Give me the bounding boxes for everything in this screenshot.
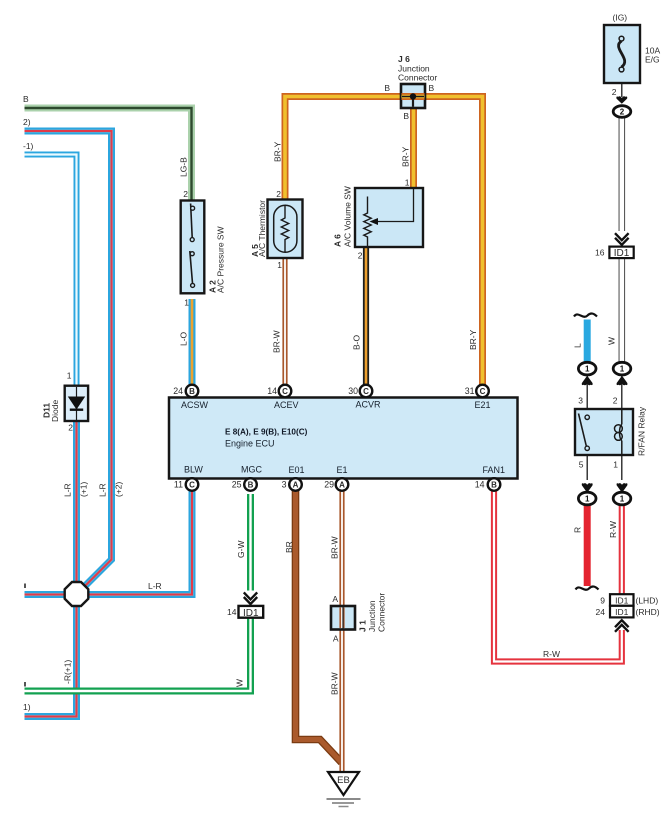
svg-text:ID1: ID1 <box>615 607 629 617</box>
svg-text:L: L <box>573 343 583 348</box>
svg-text:3: 3 <box>578 396 583 406</box>
svg-text:J 1: J 1 <box>358 620 368 632</box>
svg-text:BR: BR <box>284 541 294 553</box>
svg-text:A 6: A 6 <box>333 234 343 247</box>
svg-text:E1: E1 <box>337 465 348 475</box>
svg-text:BR-Y: BR-Y <box>468 329 478 350</box>
svg-text:BR-Y: BR-Y <box>401 146 411 167</box>
svg-text:MGC: MGC <box>241 465 262 475</box>
svg-text:(LHD): (LHD) <box>636 596 659 606</box>
svg-text:L-R: L-R <box>148 581 162 591</box>
svg-text:2: 2 <box>358 251 363 261</box>
svg-text:-1): -1) <box>23 141 34 151</box>
svg-text:W: W <box>607 337 617 345</box>
svg-text:G-W: G-W <box>236 541 246 558</box>
svg-text:A: A <box>293 481 299 490</box>
svg-text:(RHD): (RHD) <box>636 607 660 617</box>
svg-text:L-R: L-R <box>98 483 108 497</box>
svg-text:L-O: L-O <box>179 331 189 346</box>
svg-text:E21: E21 <box>475 400 491 410</box>
svg-text:ID1: ID1 <box>243 608 259 619</box>
svg-text:R: R <box>573 527 583 533</box>
svg-text:24: 24 <box>596 607 606 617</box>
svg-text:24: 24 <box>173 386 183 396</box>
svg-text:1): 1) <box>23 702 31 712</box>
svg-text:ACSW: ACSW <box>181 400 209 410</box>
svg-text:(IG): (IG) <box>613 13 628 23</box>
svg-text:9: 9 <box>600 596 605 606</box>
svg-text:Junction: Junction <box>367 600 377 632</box>
svg-text:FAN1: FAN1 <box>483 465 506 475</box>
svg-text:1: 1 <box>67 371 72 381</box>
svg-text:11: 11 <box>174 480 183 490</box>
svg-text:L-R: L-R <box>63 483 73 497</box>
svg-text:LG-B: LG-B <box>179 157 189 177</box>
svg-text:1: 1 <box>585 365 590 374</box>
svg-text:ID1: ID1 <box>615 595 629 605</box>
svg-text:B-O: B-O <box>352 335 362 351</box>
svg-text:(+2): (+2) <box>114 481 124 497</box>
svg-text:1: 1 <box>184 298 189 308</box>
svg-text:C: C <box>480 387 486 396</box>
svg-text:29: 29 <box>324 480 334 490</box>
svg-text:R-W: R-W <box>543 649 560 659</box>
svg-text:ACVR: ACVR <box>356 400 382 410</box>
svg-text:14: 14 <box>475 480 485 490</box>
svg-text:BLW: BLW <box>184 465 203 475</box>
svg-text:Connector: Connector <box>398 73 437 83</box>
svg-text:B: B <box>23 94 29 104</box>
svg-text:B: B <box>403 111 409 121</box>
svg-text:E 8(A), E 9(B), E10(C): E 8(A), E 9(B), E10(C) <box>225 428 308 437</box>
svg-text:5: 5 <box>579 460 584 470</box>
svg-text:2: 2 <box>620 108 625 117</box>
svg-text:ID1: ID1 <box>614 248 630 259</box>
svg-text:A: A <box>339 481 345 490</box>
svg-text:2: 2 <box>183 189 188 199</box>
svg-text:1: 1 <box>613 460 618 470</box>
svg-text:2: 2 <box>612 87 617 97</box>
svg-text:A: A <box>333 634 339 644</box>
svg-text:C: C <box>189 481 195 490</box>
svg-text:B: B <box>429 83 435 93</box>
svg-text:A/C Volume SW: A/C Volume SW <box>343 186 353 247</box>
svg-text:(+1): (+1) <box>79 481 89 497</box>
svg-text:C: C <box>282 387 288 396</box>
svg-text:J 6: J 6 <box>398 54 410 64</box>
svg-text:1: 1 <box>620 365 625 374</box>
svg-text:1: 1 <box>620 495 625 504</box>
svg-text:1: 1 <box>405 178 410 188</box>
svg-text:B: B <box>189 387 195 396</box>
svg-text:C: C <box>363 387 369 396</box>
svg-text:2: 2 <box>68 423 73 433</box>
svg-text:16: 16 <box>595 248 605 258</box>
svg-text:1: 1 <box>277 260 282 270</box>
svg-text:Engine ECU: Engine ECU <box>225 439 275 449</box>
svg-text:B: B <box>384 83 390 93</box>
svg-text:BR-W: BR-W <box>330 536 340 559</box>
svg-text:A: A <box>332 594 338 604</box>
svg-text:R-W: R-W <box>608 521 618 538</box>
svg-text:BR-W: BR-W <box>272 330 282 353</box>
svg-text:30: 30 <box>348 386 358 396</box>
svg-text:R/FAN Relay: R/FAN Relay <box>637 406 647 456</box>
svg-text:2): 2) <box>23 117 31 127</box>
svg-text:Diode: Diode <box>50 400 60 422</box>
svg-text:B: B <box>248 481 254 490</box>
svg-text:E01: E01 <box>289 465 305 475</box>
svg-text:E/G: E/G <box>645 55 660 65</box>
svg-text:1: 1 <box>585 495 590 504</box>
svg-text:2: 2 <box>276 189 281 199</box>
svg-text:2: 2 <box>613 396 618 406</box>
svg-text:ACEV: ACEV <box>274 400 299 410</box>
svg-text:A/C Thermistor: A/C Thermistor <box>257 200 267 257</box>
svg-text:BR-Y: BR-Y <box>273 141 283 162</box>
svg-text:EB: EB <box>337 775 350 786</box>
svg-text:A/C Pressure SW: A/C Pressure SW <box>216 226 226 293</box>
svg-text:14: 14 <box>267 386 277 396</box>
svg-text:W: W <box>235 679 245 687</box>
svg-text:3: 3 <box>282 480 287 490</box>
svg-text:31: 31 <box>465 386 475 396</box>
svg-text:Connector: Connector <box>377 593 387 632</box>
svg-text:25: 25 <box>232 480 242 490</box>
svg-text:14: 14 <box>227 607 237 617</box>
svg-text:-R(+1): -R(+1) <box>63 660 73 684</box>
svg-text:B: B <box>491 481 497 490</box>
svg-text:BR-W: BR-W <box>330 672 340 695</box>
